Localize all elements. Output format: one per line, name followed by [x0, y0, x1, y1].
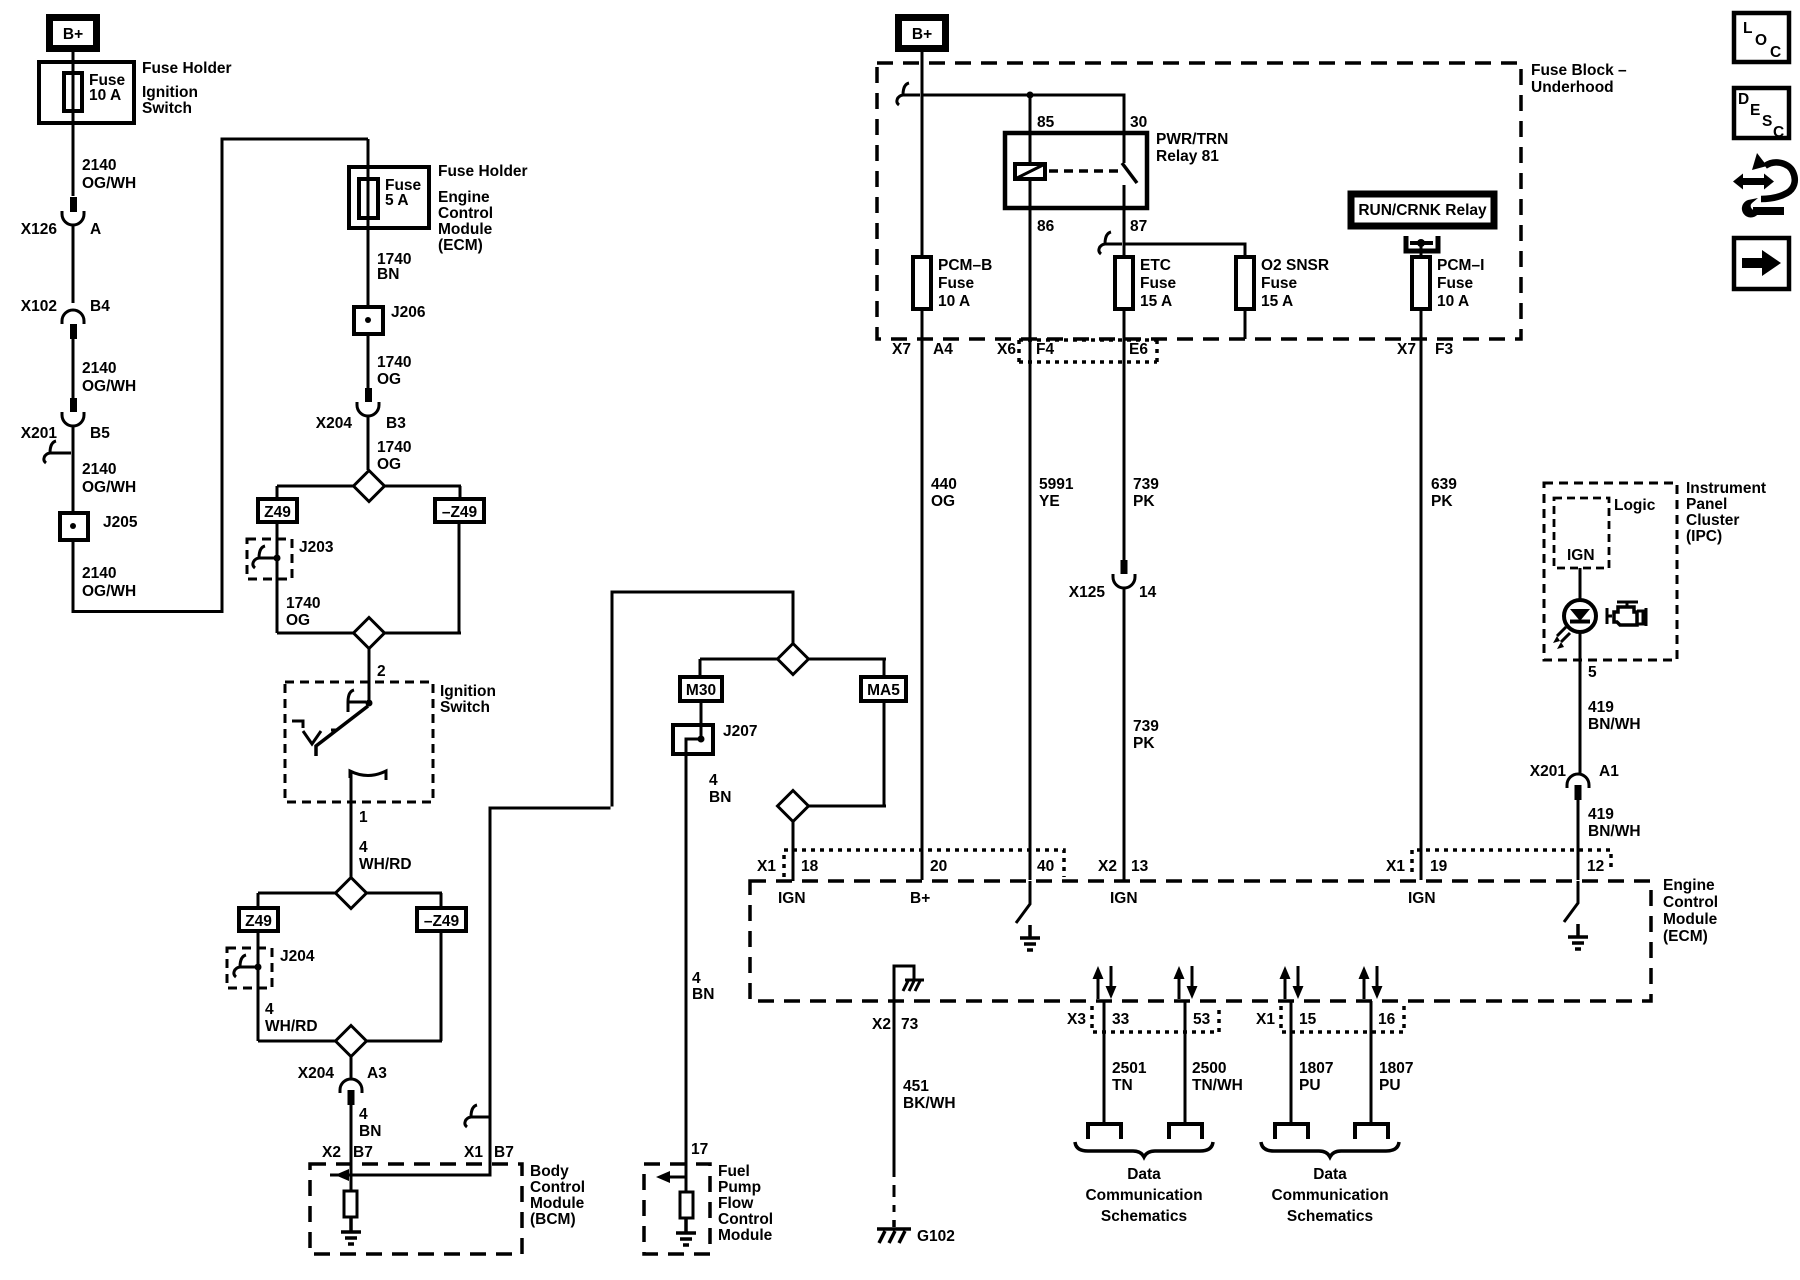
svg-text:B3: B3: [386, 415, 406, 432]
svg-text:(ECM): (ECM): [1663, 928, 1708, 945]
svg-text:Module: Module: [718, 1227, 773, 1244]
svg-text:30: 30: [1130, 114, 1147, 131]
ground in fuel pump module: [676, 1218, 696, 1245]
svg-text:BN: BN: [377, 266, 399, 283]
wire 2140 OG/WH (seg 2): [73, 339, 136, 398]
pin 12 internal switch to ground: [1564, 881, 1588, 949]
wire LED to pin 5: [1580, 631, 1641, 773]
wire O2 fuse to block edge: [1244, 309, 1247, 339]
svg-text:Z49: Z49: [264, 504, 291, 521]
net -Z49 box (lower): [417, 908, 466, 931]
svg-text:5991: 5991: [1039, 476, 1074, 493]
relay coil: [1015, 164, 1045, 179]
PWR/TRN Relay 81 box: [1005, 131, 1228, 208]
svg-text:Relay 81: Relay 81: [1156, 148, 1219, 165]
relay pin 86 wire: [1030, 179, 1055, 257]
svg-text:F4: F4: [1036, 341, 1054, 358]
svg-text:OG/WH: OG/WH: [82, 479, 136, 496]
wire 2501 TN: [1104, 1001, 1147, 1122]
svg-text:Module: Module: [530, 1195, 585, 1212]
resistor in BCM: [344, 1191, 357, 1217]
wire pin 85: [1030, 95, 1147, 164]
wire 1740 OG (seg 3): [286, 595, 320, 629]
svg-text:A1: A1: [1599, 763, 1619, 780]
svg-text:PCM–I: PCM–I: [1437, 257, 1484, 274]
svg-text:Instrument: Instrument: [1686, 480, 1766, 497]
wire lower rail: [277, 632, 461, 635]
fuse holder ECM box: [349, 167, 429, 228]
svg-text:IGN: IGN: [778, 890, 806, 907]
svg-text:X2: X2: [872, 1016, 891, 1033]
svg-text:MA5: MA5: [867, 682, 900, 699]
label Fuse Holder / Ignition Switch: [142, 60, 232, 117]
net M30 box: [680, 677, 722, 701]
net -Z49 box: [435, 499, 484, 522]
junction relay coil feed: [1027, 92, 1034, 99]
svg-text:B+: B+: [910, 890, 930, 907]
svg-text:10 A: 10 A: [89, 87, 121, 104]
pin labels X1 19 IGN: [1386, 858, 1448, 907]
svg-text:16: 16: [1378, 1011, 1396, 1028]
pin labels X6 F4: [997, 341, 1054, 358]
svg-text:A3: A3: [367, 1065, 387, 1082]
svg-text:33: 33: [1112, 1011, 1130, 1028]
svg-text:4: 4: [265, 1001, 274, 1018]
pin X2 73 internal ground: [894, 966, 924, 1001]
ignition switch (dashed box): [285, 682, 496, 802]
svg-text:Control: Control: [438, 205, 493, 222]
serial data arrows pin 33: [1093, 966, 1117, 999]
svg-text:PWR/TRN: PWR/TRN: [1156, 131, 1228, 148]
svg-text:Cluster: Cluster: [1686, 512, 1739, 529]
svg-text:BK/WH: BK/WH: [903, 1095, 956, 1112]
svg-text:B4: B4: [90, 298, 110, 315]
wire 86 through fuse gap: [1029, 179, 1032, 309]
connector dotted bracket X1 (pins 15-16): [1281, 1006, 1404, 1032]
off-page connector U (16): [1355, 1124, 1388, 1139]
svg-text:S: S: [1762, 113, 1772, 130]
svg-text:2140: 2140: [82, 461, 116, 478]
splice diamond S2: [354, 618, 385, 649]
arrowhead fuel pump bus: [663, 1176, 686, 1179]
svg-text:IGN: IGN: [1110, 890, 1138, 907]
svg-text:Fuel: Fuel: [718, 1163, 750, 1180]
svg-text:87: 87: [1130, 218, 1147, 235]
splice diamond S6: [778, 791, 809, 822]
svg-text:Control: Control: [1663, 894, 1718, 911]
svg-text:B5: B5: [90, 425, 110, 442]
svg-text:X102: X102: [21, 298, 57, 315]
svg-text:Logic: Logic: [1614, 497, 1656, 514]
off-page connector U (33): [1088, 1124, 1121, 1139]
wire 4 BN to fuel pump module: [686, 752, 731, 1193]
svg-text:1740: 1740: [286, 595, 320, 612]
svg-text:13: 13: [1131, 858, 1149, 875]
svg-text:X201: X201: [1530, 763, 1567, 780]
pin 40 internal switch to ground: [1016, 881, 1040, 950]
fuse holder Ignition Switch box: [39, 62, 134, 123]
connector dotted bracket X1 right (pins 19-12): [1412, 850, 1611, 872]
clip at B+ feed junction: [897, 83, 920, 105]
wire Z49 lower branch rails (top): [258, 893, 442, 906]
svg-text:BN/WH: BN/WH: [1588, 823, 1641, 840]
wire 4 WH/RD label (seg 2): [265, 1001, 318, 1035]
pin labels X7 F3: [1397, 341, 1453, 358]
svg-text:4: 4: [692, 970, 701, 987]
pin labels X1 18 IGN: [757, 858, 819, 907]
svg-text:17: 17: [691, 1141, 708, 1158]
svg-text:J204: J204: [280, 948, 315, 965]
svg-text:Switch: Switch: [142, 100, 192, 117]
wire -Z49 to lower rail: [458, 522, 461, 633]
wire 451 BK/WH to G102: [894, 1001, 956, 1212]
fuse ETC 15A: [1115, 257, 1177, 310]
wire route to ECM fuse (up and over): [73, 139, 368, 612]
svg-text:X1: X1: [1386, 858, 1405, 875]
svg-text:A: A: [90, 221, 101, 238]
relay switch blade: [1122, 163, 1137, 183]
svg-text:X1: X1: [1256, 1011, 1275, 1028]
svg-text:Data: Data: [1313, 1166, 1347, 1183]
svg-text:X3: X3: [1067, 1011, 1086, 1028]
svg-text:4: 4: [709, 772, 718, 789]
svg-text:X7: X7: [892, 341, 911, 358]
icon LOC box: [1734, 13, 1789, 62]
svg-text:X125: X125: [1069, 584, 1106, 601]
label data communication schematics (right): [1271, 1166, 1388, 1225]
wire jog to BCM X1 B7: [490, 808, 611, 1117]
svg-text:OG: OG: [377, 456, 401, 473]
wire X1 B7 into BCM: [330, 1108, 490, 1175]
svg-text:BN: BN: [692, 986, 714, 1003]
ignition switch pivot junction: [366, 700, 373, 707]
splice diamond S3: [336, 878, 367, 909]
svg-text:Engine: Engine: [438, 189, 490, 206]
svg-text:Z49: Z49: [245, 913, 272, 930]
B+ power symbol (right): [899, 18, 946, 49]
svg-text:PK: PK: [1133, 493, 1155, 510]
fuel pump flow control module box (dashed): [644, 1163, 773, 1254]
wire top run to M30 splice: [612, 592, 793, 807]
svg-text:2: 2: [377, 663, 386, 680]
svg-text:15: 15: [1299, 1011, 1317, 1028]
svg-text:PU: PU: [1379, 1077, 1401, 1094]
pin 18 wire end: [792, 821, 795, 881]
svg-text:X2: X2: [1098, 858, 1117, 875]
svg-text:Switch: Switch: [440, 699, 490, 716]
svg-text:15 A: 15 A: [1261, 293, 1293, 310]
svg-text:OG/WH: OG/WH: [82, 175, 136, 192]
label data communication schematics (left): [1085, 1166, 1202, 1225]
pin labels X2 73: [872, 1016, 919, 1033]
svg-text:5 A: 5 A: [385, 192, 409, 209]
splice diamond S1: [354, 471, 385, 502]
logic box (dashed): [1554, 497, 1656, 568]
icon diagnostic arrows + wrench: [1733, 153, 1795, 218]
svg-text:WH/RD: WH/RD: [265, 1018, 318, 1035]
clip at ignition pivot: [348, 690, 366, 712]
wire PCM-I fuse to pin F3 and ECM pin 19: [1420, 309, 1423, 880]
svg-text:739: 739: [1133, 476, 1159, 493]
fuse F1 10A: [64, 72, 126, 111]
wire diamond to X204 A3: [350, 1056, 353, 1078]
svg-text:2140: 2140: [82, 565, 116, 582]
clip on BCM X1 wire: [465, 1105, 489, 1127]
svg-text:1740: 1740: [377, 354, 411, 371]
wire label 5991 YE: [1039, 476, 1074, 510]
pin labels X2 13 IGN: [1098, 858, 1149, 907]
connector dotted bracket X1 top (pins 18-40): [784, 850, 1064, 877]
svg-text:20: 20: [930, 858, 947, 875]
fuse F2 5A: [359, 177, 422, 218]
fuse PCM-B 10A: [913, 257, 992, 310]
svg-text:WH/RD: WH/RD: [359, 856, 412, 873]
wire M30 branch rails: [700, 659, 886, 675]
ignition switch blade: [316, 706, 368, 756]
clip on X201 wire: [44, 441, 71, 463]
svg-text:O: O: [1755, 32, 1767, 49]
svg-text:419: 419: [1588, 806, 1614, 823]
svg-text:B+: B+: [912, 26, 932, 43]
svg-text:M30: M30: [686, 682, 716, 699]
arrowhead BCM bus: [335, 1169, 349, 1181]
engine icon: [1607, 602, 1646, 626]
pin labels X1 B7: [464, 1144, 514, 1161]
icon DESC box: [1734, 88, 1789, 141]
connector X204 pin B3: [316, 388, 406, 432]
svg-text:D: D: [1738, 91, 1749, 108]
svg-text:4: 4: [359, 1106, 368, 1123]
wire 1740 OG (seg 2): [368, 416, 411, 473]
svg-text:Data: Data: [1127, 1166, 1161, 1183]
svg-text:40: 40: [1037, 858, 1054, 875]
ignition ACC contact: [292, 721, 337, 744]
connector X201 pin B5: [21, 398, 110, 442]
wire -Z49 to lower rail (2nd): [440, 931, 443, 1041]
svg-text:PCM–B: PCM–B: [938, 257, 992, 274]
svg-text:X201: X201: [21, 425, 58, 442]
wire splice to ECM pin 18: [792, 821, 795, 880]
serial data arrows pin 16: [1359, 966, 1383, 999]
wire 2140 OG/WH (seg 4): [73, 540, 136, 613]
svg-text:10 A: 10 A: [1437, 293, 1469, 310]
wire 1807 PU (a): [1291, 1001, 1333, 1122]
svg-text:IGN: IGN: [1408, 890, 1436, 907]
fuse O2 SNSR 15A: [1236, 257, 1329, 310]
wire ETC fuse to pin E6: [1123, 309, 1126, 560]
svg-text:X126: X126: [21, 221, 58, 238]
splice diamond S5: [778, 644, 809, 675]
net Z49 box (lower): [239, 908, 278, 931]
off-page connector U (53): [1169, 1124, 1202, 1139]
wire 2140 OG/WH (seg 3): [73, 426, 136, 513]
icon go-to arrow box: [1734, 238, 1789, 289]
svg-text:419: 419: [1588, 699, 1614, 716]
svg-text:X7: X7: [1397, 341, 1416, 358]
svg-text:Fuse Holder: Fuse Holder: [142, 60, 232, 77]
svg-text:Schematics: Schematics: [1101, 1208, 1187, 1225]
wire label 639 PK: [1431, 476, 1457, 510]
svg-text:J207: J207: [723, 723, 757, 740]
pin labels X3 33 53: [1067, 1011, 1211, 1028]
svg-text:1740: 1740: [377, 439, 411, 456]
svg-text:B+: B+: [63, 26, 83, 43]
wire 419 BN/WH to ECM pin 12: [1578, 800, 1641, 880]
svg-text:G102: G102: [917, 1228, 955, 1245]
svg-text:18: 18: [801, 858, 819, 875]
wire 4 BN to BCM: [351, 1105, 381, 1192]
svg-text:OG/WH: OG/WH: [82, 583, 136, 600]
B+ power symbol (left): [50, 18, 97, 49]
svg-text:53: 53: [1193, 1011, 1211, 1028]
svg-text:J205: J205: [103, 514, 138, 531]
net MA5 box: [861, 677, 906, 701]
off-page connector U (15): [1275, 1124, 1308, 1139]
svg-text:E6: E6: [1129, 341, 1148, 358]
svg-text:TN/WH: TN/WH: [1192, 1077, 1243, 1094]
BCM box (dashed): [310, 1163, 585, 1254]
svg-text:ETC: ETC: [1140, 257, 1171, 274]
svg-text:PK: PK: [1431, 493, 1453, 510]
svg-text:739: 739: [1133, 718, 1159, 735]
pin labels X7 A4: [892, 341, 953, 358]
wire 1740 BN label: [377, 251, 411, 283]
svg-text:2140: 2140: [82, 360, 116, 377]
svg-text:2500: 2500: [1192, 1060, 1226, 1077]
connector dotted bracket X3 (pins 33-53): [1092, 1006, 1219, 1032]
svg-text:1: 1: [359, 809, 368, 826]
wire Z49 to J203: [276, 522, 279, 633]
clip at 87 branch: [1099, 232, 1122, 254]
svg-text:Underhood: Underhood: [1531, 79, 1614, 96]
relay link (dashed): [1049, 169, 1119, 173]
svg-text:OG/WH: OG/WH: [82, 378, 136, 395]
svg-text:Flow: Flow: [718, 1195, 754, 1212]
pin labels 20 B+: [910, 858, 947, 907]
svg-text:Fuse Block –: Fuse Block –: [1531, 62, 1627, 79]
wire MA5 to lower rail: [808, 701, 886, 806]
svg-text:–Z49: –Z49: [424, 913, 460, 930]
wire 87 branch to O2 fuse: [1124, 244, 1245, 257]
svg-text:X6: X6: [997, 341, 1016, 358]
relay pin 87 wire: [1124, 185, 1147, 257]
svg-text:F3: F3: [1435, 341, 1453, 358]
svg-text:IGN: IGN: [1567, 547, 1595, 564]
svg-text:5: 5: [1588, 664, 1597, 681]
wire Z49 branch rails (top): [277, 486, 461, 499]
svg-text:(BCM): (BCM): [530, 1211, 576, 1228]
wire 1807 PU (b): [1371, 1001, 1413, 1122]
fuse PCM-I 10A: [1412, 257, 1484, 310]
svg-text:Fuse: Fuse: [938, 275, 975, 292]
splice J205: [60, 513, 138, 540]
wire M30 to J207: [700, 701, 703, 738]
svg-text:15 A: 15 A: [1140, 293, 1172, 310]
svg-text:OG: OG: [377, 371, 401, 388]
svg-text:Body: Body: [530, 1163, 569, 1180]
svg-text:TN: TN: [1112, 1077, 1133, 1094]
wire 2500 TN/WH: [1185, 1001, 1243, 1122]
svg-text:X204: X204: [316, 415, 353, 432]
ignition RUN contact arc: [350, 771, 386, 780]
svg-text:451: 451: [903, 1078, 929, 1095]
brace data comm (left): [1075, 1142, 1213, 1157]
svg-text:10 A: 10 A: [938, 293, 970, 310]
splice diamond S4: [336, 1026, 367, 1057]
wire B+ to fuse holder: [72, 52, 75, 62]
svg-text:Ignition: Ignition: [440, 683, 496, 700]
svg-text:14: 14: [1139, 584, 1157, 601]
pin labels X1 15 16: [1256, 1011, 1396, 1028]
svg-text:L: L: [1743, 20, 1752, 37]
svg-text:440: 440: [931, 476, 957, 493]
wire 739 PK (seg 2) to ECM pin 13: [1124, 587, 1159, 880]
brace data comm (right): [1261, 1142, 1399, 1157]
instrument panel cluster box (dashed): [1544, 480, 1766, 660]
splice J206: [354, 304, 426, 334]
svg-text:Fuse: Fuse: [1140, 275, 1177, 292]
connector dotted box F4-E6: [1019, 340, 1157, 362]
fuse block underhood box (dashed): [877, 62, 1627, 339]
connector X126 pin A: [21, 197, 101, 238]
svg-text:Ignition: Ignition: [142, 84, 198, 101]
svg-text:2140: 2140: [82, 157, 116, 174]
svg-text:B7: B7: [494, 1144, 514, 1161]
net Z49 box: [258, 499, 297, 522]
connector X125 pin 14: [1069, 560, 1157, 601]
svg-text:BN: BN: [359, 1123, 381, 1140]
connector X204 pin A3: [298, 1065, 387, 1105]
svg-text:C: C: [1773, 124, 1784, 141]
serial data arrows pin 53: [1174, 966, 1198, 999]
svg-text:Engine: Engine: [1663, 877, 1715, 894]
wire PCM-B fuse to pin A4: [921, 309, 924, 880]
splice J207: [673, 723, 757, 754]
svg-text:PU: PU: [1299, 1077, 1321, 1094]
connector X102 pin B4: [21, 298, 110, 339]
svg-text:1807: 1807: [1299, 1060, 1333, 1077]
svg-text:E: E: [1750, 102, 1760, 119]
svg-text:Pump: Pump: [718, 1179, 761, 1196]
svg-text:B7: B7: [353, 1144, 373, 1161]
svg-text:A4: A4: [933, 341, 953, 358]
svg-text:OG: OG: [931, 493, 955, 510]
svg-text:YE: YE: [1039, 493, 1060, 510]
svg-text:X1: X1: [464, 1144, 483, 1161]
svg-text:X204: X204: [298, 1065, 335, 1082]
wire logic to LED: [1579, 568, 1582, 601]
svg-text:BN/WH: BN/WH: [1588, 716, 1641, 733]
svg-text:C: C: [1770, 44, 1781, 61]
svg-text:RUN/CRNK Relay: RUN/CRNK Relay: [1358, 202, 1487, 219]
svg-text:12: 12: [1587, 858, 1604, 875]
svg-text:73: 73: [901, 1016, 919, 1033]
ground G102: [877, 1220, 955, 1245]
wire lower rail (2nd): [258, 1040, 442, 1043]
svg-text:–Z49: –Z49: [442, 504, 478, 521]
svg-text:Schematics: Schematics: [1287, 1208, 1373, 1225]
serial data arrows pin 15: [1280, 966, 1304, 999]
svg-text:Control: Control: [530, 1179, 585, 1196]
svg-text:86: 86: [1037, 218, 1055, 235]
svg-text:O2 SNSR: O2 SNSR: [1261, 257, 1329, 274]
svg-text:(IPC): (IPC): [1686, 528, 1722, 545]
svg-text:J203: J203: [299, 539, 334, 556]
svg-text:Panel: Panel: [1686, 496, 1727, 513]
wire relay 86 to pin F4: [1029, 309, 1032, 880]
svg-text:Communication: Communication: [1271, 1187, 1388, 1204]
wire to ignition switch, pin 2: [369, 648, 386, 704]
